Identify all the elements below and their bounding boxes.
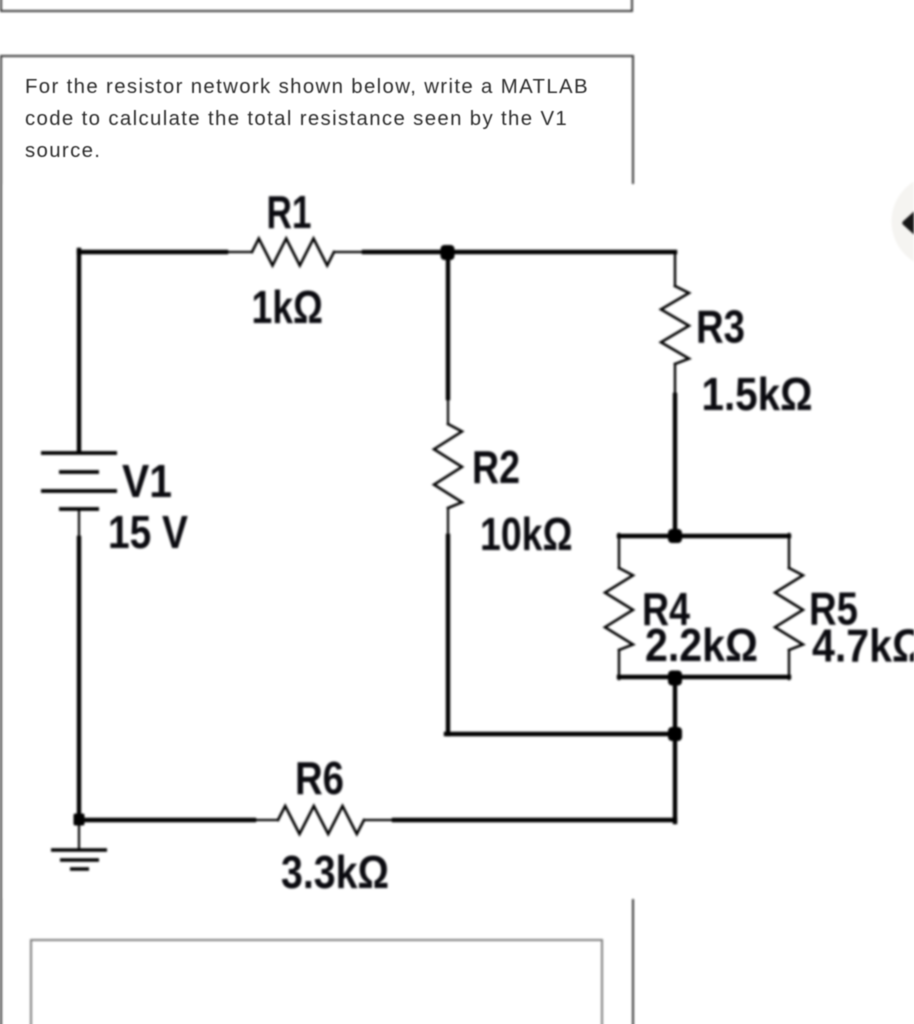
wire: R4 thin lead top [618,534,620,568]
wire: thin stub below battery [78,509,80,540]
wire: parallel block top rail [619,534,789,538]
wire: right column from parallel block down to bottom rail [673,677,677,822]
wire: R3 thin lead bottom [674,364,676,397]
battery V1 plate long top [41,451,117,455]
wire: bottom rail right thick [394,818,675,822]
resistor R1 zigzag [252,239,334,266]
wire: thin lead out of R1 [334,251,366,253]
wire: thin lead into R6 [252,819,278,821]
svg-text:15 V: 15 V [108,506,188,558]
svg-text:1kΩ: 1kΩ [252,281,324,333]
wire: left rail upper (V1 top to top rail) [77,250,81,451]
svg-text:4.7kΩ: 4.7kΩ [812,620,914,672]
floating back button circle [892,175,914,269]
top card (partially visible above viewport) [0,0,633,12]
wire: top rail left thick segment [79,250,226,254]
svg-text:R3: R3 [696,301,745,353]
wire: R2 thin lead bottom [447,508,449,538]
resistor R3 zigzag [661,286,689,364]
svg-text:3.3kΩ: 3.3kΩ [281,846,389,898]
node dot: R1/R2 junction on top rail [441,245,455,260]
svg-text:10kΩ: 10kΩ [480,508,573,560]
battery V1 plate short [59,470,99,474]
question card [0,55,634,1024]
svg-text:1.5kΩ: 1.5kΩ [702,368,813,420]
svg-text:R6: R6 [295,752,344,804]
node dot: R2 return junction [668,727,682,741]
ground bar 1 [51,848,107,852]
resistor R6 zigzag [278,806,364,834]
wire: ground stub [78,820,80,849]
resistor R2 zigzag [434,424,462,508]
wire: R3 thin lead top [674,252,676,286]
resistor R4 zigzag [605,568,633,650]
svg-text:R1: R1 [267,186,312,238]
svg-text:R2: R2 [472,441,520,493]
wire: left rail lower thick [77,538,81,820]
wire: thin lead out of R6 [364,819,396,821]
wire: bottom rail left thick [79,818,254,822]
wire: R2 column upper thick [446,252,450,398]
ground bar 2 [60,858,99,862]
node dot: R3 to parallel block top [668,529,682,543]
wire: parallel block bottom rail [619,675,789,679]
wire: R2 column lower thick [446,536,450,734]
battery V1 plate short bottom [59,507,99,511]
ground bar 3 [70,867,89,871]
wire: top rail right thick segment [364,250,675,254]
schematic white background [4,184,914,899]
wire: R3 column thick down to parallel block [673,395,677,536]
wire: R4 thin lead bottom [618,650,620,679]
node dot: ground junction on bottom rail [74,814,85,826]
svg-text:2.2kΩ: 2.2kΩ [645,619,758,671]
question text [25,71,589,168]
wire: R2 thin lead top [447,396,449,424]
wire: R5 thin lead bottom [788,650,790,679]
wire: R5 thin lead top [788,534,790,568]
node dot: parallel block bottom [668,671,682,686]
answer input box [30,939,603,1024]
battery V1 plate long bottom [41,489,117,493]
wire: R2 bottom horizontal to right column [446,732,675,736]
resistor R5 zigzag [775,568,803,650]
wire: top rail thin lead into R1 [224,251,252,253]
back button triangle [905,204,914,243]
svg-text:V1: V1 [122,455,172,507]
